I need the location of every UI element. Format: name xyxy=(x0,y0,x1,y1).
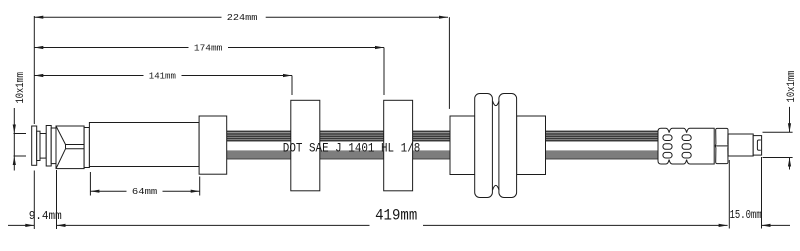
svg-text:224mm: 224mm xyxy=(227,13,258,23)
left fitting threaded tube xyxy=(40,134,46,159)
dimension 9.4mm: right extension line xyxy=(56,170,58,229)
svg-text:15.0mm: 15.0mm xyxy=(730,209,762,222)
dimension 224mm: line xyxy=(34,16,448,19)
right 10x1mm dimension: extension lines xyxy=(763,132,793,157)
dimension 141mm: right extension line xyxy=(291,76,293,96)
right crimp ferrule (wavy) xyxy=(658,128,714,164)
left bottom extension line (shared 224/174/141 and 9.4) xyxy=(33,171,35,230)
dimension 64mm: line xyxy=(90,190,199,193)
dimension 174mm: line xyxy=(34,46,384,49)
grommet groove bulge top xyxy=(493,101,500,106)
svg-text:DOT SAE J 1401 HL 1/8: DOT SAE J 1401 HL 1/8 xyxy=(283,141,421,156)
grommet groove bulge bottom xyxy=(493,185,500,190)
grommet right sleeve xyxy=(517,116,546,175)
hose segment D (grommet to right ferrule) xyxy=(546,131,659,160)
dimension 15.0mm: left extension line xyxy=(728,160,730,229)
grommet disc 2 xyxy=(499,94,517,198)
left fitting plate B xyxy=(37,131,40,160)
dimension 9.4mm: left lead line with arrow xyxy=(8,224,34,227)
dimension 64mm: extension lines xyxy=(90,172,199,196)
right fitting hex nut xyxy=(715,128,728,163)
hose segment A (left fitting to clamp block B1) xyxy=(227,131,291,160)
dimension 174mm: right extension line xyxy=(383,48,385,96)
right 10x1mm dimension: arrows xyxy=(788,107,791,170)
left 10x1mm dimension: extension lines xyxy=(14,134,27,157)
left top extension line xyxy=(33,16,35,124)
svg-text:10x1mm: 10x1mm xyxy=(15,72,27,104)
ferrule dimples column 1 xyxy=(663,135,672,158)
left fitting collar xyxy=(84,128,89,168)
right fitting tube bore xyxy=(757,140,760,150)
svg-text:64mm: 64mm xyxy=(132,187,157,197)
left fitting plate D xyxy=(51,128,56,164)
dimension 141mm: line xyxy=(34,74,292,77)
ferrule dimples column 2 xyxy=(682,135,691,158)
left 10x1mm dimension: arrows xyxy=(13,108,16,171)
grommet disc 1 xyxy=(475,94,493,198)
svg-text:419mm: 419mm xyxy=(375,207,417,225)
hose segment B (between clamp blocks) xyxy=(320,131,384,160)
left fitting flange plate A xyxy=(32,126,37,165)
clamp block B2 xyxy=(384,100,413,191)
dimension 419mm: line xyxy=(57,224,728,227)
left fitting end block xyxy=(199,116,227,174)
left fitting hex nut xyxy=(56,126,84,169)
clamp block B1 xyxy=(291,100,320,191)
right fitting end tube xyxy=(753,136,761,156)
right fitting male thread cylinder xyxy=(728,134,753,156)
dimension 15.0mm: right lead line with arrow xyxy=(762,224,791,227)
left fitting long body (64mm) xyxy=(89,123,199,167)
svg-text:141mm: 141mm xyxy=(149,71,176,81)
hose segment C (clamp block B2 to grommet) xyxy=(413,131,450,160)
left fitting plate C xyxy=(46,126,51,167)
svg-text:174mm: 174mm xyxy=(194,43,223,53)
svg-text:10x1mm: 10x1mm xyxy=(786,70,798,102)
dimension 224mm: right extension line xyxy=(448,17,450,109)
grommet left sleeve xyxy=(450,116,475,175)
dimension 15.0mm: right extension line xyxy=(761,157,763,229)
